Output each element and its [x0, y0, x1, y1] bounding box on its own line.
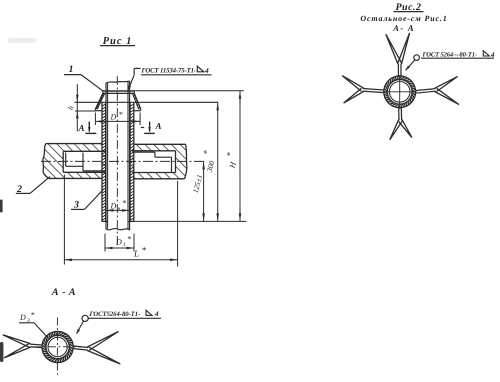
arm south (fig2) — [398, 108, 400, 121]
svg-text:ГОСТ 5264—80-Т1-: ГОСТ 5264—80-Т1- — [422, 51, 477, 58]
svg-text:D: D — [110, 113, 117, 122]
section A-A cut marks — [88, 122, 90, 132]
svg-text:D: D — [115, 238, 122, 247]
funnel rim (top flange of cone) — [103, 90, 134, 92]
pipe outer tube walls (hatched) — [101, 103, 103, 222]
dim 300* — [217, 102, 219, 221]
left extension line y=111 (cone bottom level) — [75, 110, 95, 112]
arm east (fig3) — [73, 349, 88, 351]
plate right edge — [185, 144, 187, 179]
svg-text:H: H — [227, 160, 238, 170]
h dimension (left of funnel) — [76, 84, 78, 132]
plate left broken edge — [43, 144, 49, 179]
hub weld ring (fig2) — [384, 76, 416, 108]
svg-text:А - А: А - А — [51, 287, 76, 298]
Dn* dimension (pipe outer dia at bottom) — [106, 209, 130, 211]
svg-text:ГОСТ5264-80-Т1-: ГОСТ5264-80-Т1- — [89, 311, 141, 318]
svg-text:4: 4 — [490, 51, 495, 59]
D* dimension under cone — [94, 113, 96, 126]
svg-text:*: * — [224, 151, 235, 158]
hub centerlines (fig3, dash-dot) — [33, 346, 83, 348]
arm west (fig2) — [363, 89, 384, 91]
outer tube bottom end caps — [102, 220, 108, 222]
centerline of pipe (vertical dash-dot) — [116, 76, 118, 248]
weld callout GOST 11534 (fig1) — [134, 67, 140, 69]
svg-text:А- А: А- А — [392, 23, 415, 33]
baseline for vertical dims (pipe bottom level) — [134, 220, 247, 222]
svg-text:*: * — [127, 235, 131, 244]
svg-text:*: * — [119, 110, 123, 119]
arm west (fig3) — [30, 343, 42, 346]
svg-text:1: 1 — [123, 242, 126, 248]
arm north (fig2) — [400, 64, 402, 76]
svg-text:*: * — [31, 311, 35, 320]
cone wall hatch ticks — [96, 94, 140, 109]
weld callout GOST 5264 (fig2) — [414, 55, 420, 61]
svg-text:D: D — [19, 313, 26, 322]
weld callout GOST 5264 (fig3) — [82, 315, 88, 321]
hub weld ring (fig3) — [42, 331, 73, 362]
svg-text:н: н — [118, 206, 121, 212]
svg-text:D: D — [110, 201, 117, 210]
cone bottom edges — [94, 109, 96, 111]
svg-text:4: 4 — [204, 66, 209, 75]
inner tube wavy bottom break line — [106, 228, 130, 230]
svg-text:L: L — [133, 249, 139, 259]
svg-text:4: 4 — [154, 310, 159, 318]
funnel cone walls — [95, 93, 103, 109]
arm east (fig2) — [416, 91, 436, 93]
scan smudges at left edge — [0, 200, 3, 213]
svg-text:А: А — [77, 123, 84, 133]
plate (hatched) outline — [46, 143, 102, 145]
svg-text:1: 1 — [69, 64, 74, 75]
left bushing cavity — [63, 150, 105, 152]
svg-text:А: А — [155, 121, 162, 131]
svg-text:*: * — [142, 245, 147, 255]
plate horizontal centerline with extension to 125 dim — [41, 160, 205, 162]
weld triangle symbol — [197, 66, 204, 72]
hub center cross (fig2) — [383, 91, 416, 93]
svg-text:ГОСТ 11534-75-Т1-: ГОСТ 11534-75-Т1- — [141, 68, 197, 75]
dim H* — [239, 91, 241, 222]
pipe inner tube (vertical, through whole view) — [105, 83, 107, 229]
H* extension line from funnel rim — [134, 90, 244, 92]
L* dimension — [63, 175, 65, 265]
svg-text:*: * — [122, 199, 126, 208]
D1* dimension (below pipe) — [104, 234, 106, 252]
svg-text:Остальное-см Рис.1: Остальное-см Рис.1 — [360, 14, 447, 23]
dim 125±1 (centerline to pipe bottom) — [203, 161, 205, 221]
svg-text:125±1: 125±1 — [191, 173, 205, 194]
plate hatching — [40, 140, 110, 182]
svg-text:h: h — [66, 105, 76, 112]
svg-text:*: * — [201, 149, 212, 156]
svg-text:300: 300 — [204, 160, 216, 174]
weld joint line across funnel (y=102.3) extending to 300 dim — [75, 101, 219, 103]
right bushing cavity — [132, 150, 176, 152]
inner tube wavy top edge — [106, 81, 130, 83]
